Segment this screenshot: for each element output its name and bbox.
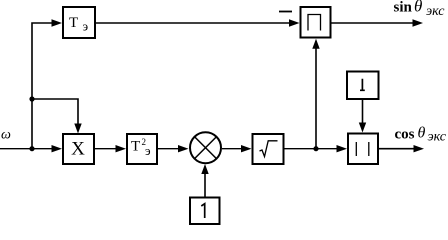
arrowhead sin output [413, 19, 424, 26]
wire: Te output to limiter [96, 22, 290, 24]
wire: limiter output to sin [332, 22, 414, 24]
pulse glyph [308, 15, 321, 31]
sqrt radical glyph [260, 141, 278, 157]
wire: multiplier output to sqrt [222, 148, 242, 150]
svg-text:Т: Т [131, 139, 140, 155]
wire: omega input to X [0, 148, 53, 150]
arrowhead into X left [52, 145, 63, 152]
wire: vertical riser to Te row [32, 23, 53, 149]
arrowhead into limiter bottom [312, 39, 319, 49]
block T2e (squared time constant) [127, 134, 157, 164]
svg-text:X: X [71, 139, 85, 160]
node: upper junction [29, 96, 34, 101]
arrowhead into T2 left [116, 145, 127, 152]
svg-text:экс: экс [426, 4, 445, 19]
block absolute value [348, 134, 378, 165]
arrowhead into X top [74, 124, 81, 134]
svg-text:sin: sin [394, 0, 413, 16]
wire: T2 output to multiplier circle [158, 148, 179, 150]
block limiter (pulse shaper) [301, 7, 331, 38]
svg-text:θ: θ [418, 125, 426, 142]
wire: constant 1 (bottom) up to multiplier [204, 174, 206, 197]
block X (multiplier) [63, 134, 94, 164]
wire: riser from junction up to limiter bottom [315, 48, 317, 149]
arrowhead into abs top [359, 123, 366, 133]
svg-text:cos: cos [395, 127, 415, 143]
arrowhead into multiplier bottom [201, 164, 208, 174]
node: lower junction on input [29, 146, 34, 151]
arrowhead into abs left [337, 145, 348, 152]
abs bars glyph [355, 142, 357, 156]
svg-text:э: э [83, 19, 89, 34]
svg-text:экс: экс [428, 130, 447, 145]
arrowhead cos output [414, 145, 425, 152]
label 1 [360, 79, 365, 91]
block constant 1 (top right) [347, 72, 379, 100]
svg-text:θ: θ [414, 0, 422, 16]
minus sign above limiter input [279, 11, 292, 13]
node: junction on sqrt output [313, 146, 318, 151]
arrowhead into multiplier circle left [178, 145, 189, 152]
wire: abs output to cos [379, 148, 414, 150]
multiplier circle with cross [190, 132, 221, 163]
svg-text:ω: ω [1, 128, 11, 143]
label 1 [201, 204, 204, 218]
wire: sqrt output to abs block [285, 148, 338, 150]
arrowhead into limiter left [289, 19, 300, 26]
block constant 1 (bottom) [190, 198, 220, 225]
arrowhead into Te left [52, 19, 63, 26]
block sqrt [253, 134, 284, 164]
arrowhead into sqrt left [241, 145, 252, 152]
block Te (time constant) [63, 7, 95, 38]
svg-text:э: э [145, 143, 151, 158]
wire: X output to T2 [95, 148, 117, 150]
svg-text:Т: Т [69, 15, 78, 31]
wire: constant 1 down into abs top [362, 100, 364, 124]
wire: branch over into X top [32, 99, 78, 125]
